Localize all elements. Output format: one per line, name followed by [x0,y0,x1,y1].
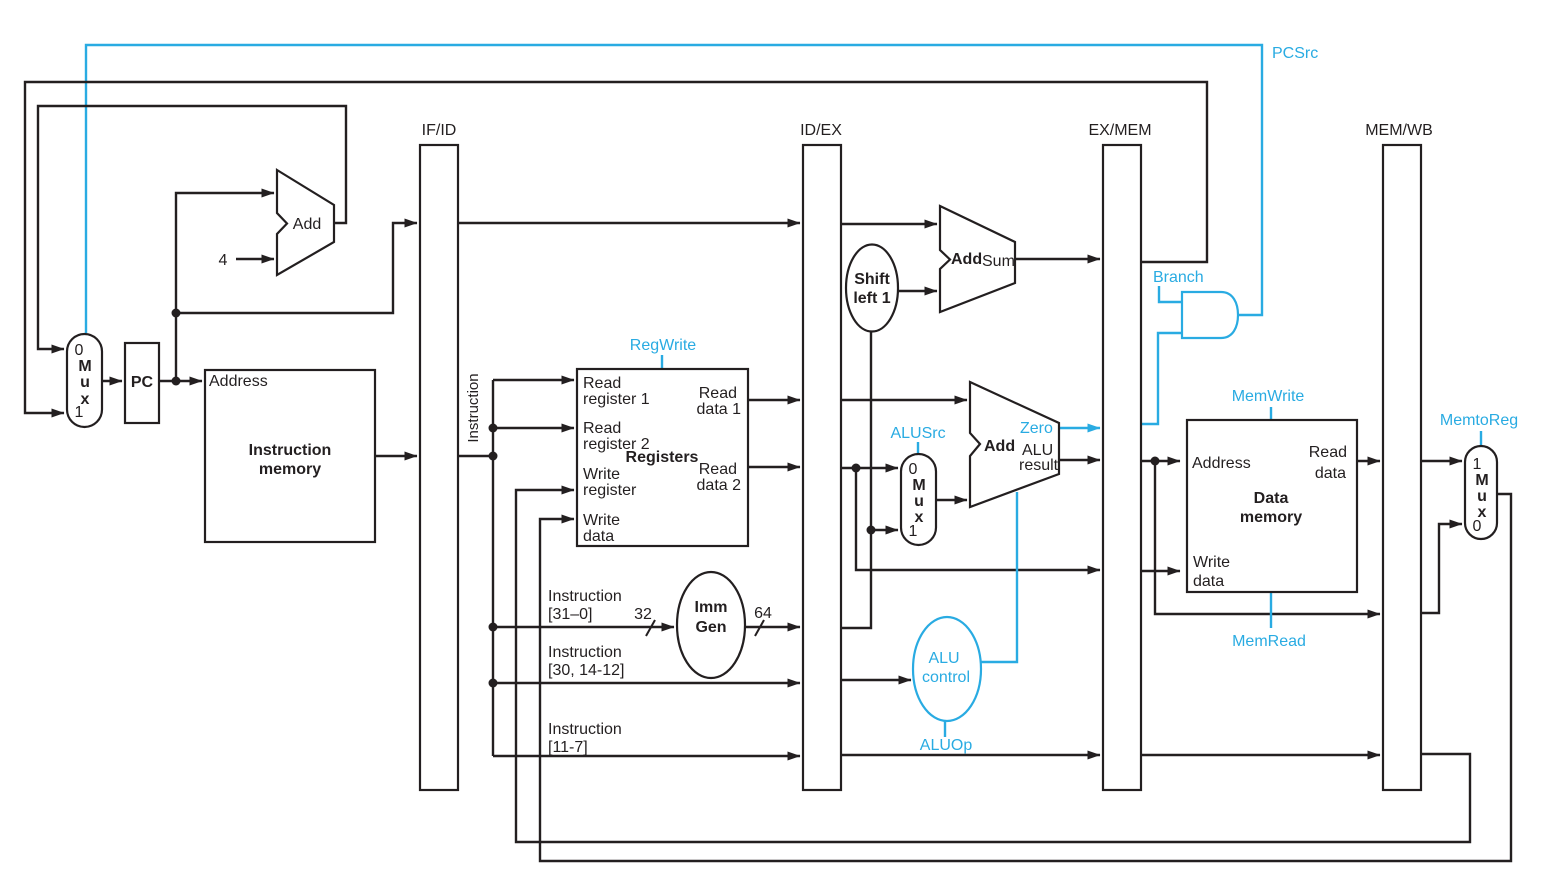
svg-text:data: data [583,528,614,545]
svg-text:Address: Address [209,373,268,390]
svg-text:ALU: ALU [928,650,959,667]
svg-text:Write: Write [583,512,620,529]
svg-text:Read: Read [583,375,621,392]
svg-text:EX/MEM: EX/MEM [1088,122,1151,139]
wire ID/EX write-register number to EX/MEM [841,754,1100,756]
wire ALU result bypass around data memory to MEM/WB [1155,461,1380,614]
wire EX/MEM store data to data memory write data [1141,570,1180,572]
wire branch-target loop: EX/MEM out right, up, across top, down to mux input 1 [25,82,1207,413]
instruction memory [205,370,375,542]
svg-text:Registers: Registers [626,449,699,466]
ALU [970,382,1059,507]
wire ID/EX read data 1 to ALU [841,399,967,401]
svg-text:Shift: Shift [854,271,890,288]
node PC+4 branch junction [172,309,181,318]
wire ID/EX funct field to ALU control [841,679,911,681]
wire ALUSrc control tick [917,442,919,453]
wire Read data 1 to ID/EX [748,399,800,401]
svg-text:Data: Data [1254,490,1289,507]
adder Add (PC+4) [277,170,334,275]
svg-text:IF/ID: IF/ID [422,122,457,139]
svg-text:Read: Read [699,461,737,478]
wire EX/MEM ALU result to data memory address [1141,460,1180,462]
svg-text:register: register [583,482,637,499]
adder AddSum (branch target) [940,206,1015,312]
svg-text:Instruction: Instruction [465,373,482,442]
wire instruction [30,14-12] to ID/EX [493,682,800,684]
node ALU result junction [1151,457,1160,466]
svg-text:u: u [914,493,924,510]
node instruction fan junction (main) [489,452,498,461]
svg-text:data: data [1193,573,1224,590]
svg-text:Gen: Gen [695,619,726,636]
svg-text:ID/EX: ID/EX [800,122,842,139]
svg-text:data 1: data 1 [697,401,742,418]
wire ALUOp control tick [944,721,946,737]
svg-text:result: result [1019,457,1059,474]
svg-text:1: 1 [909,523,918,540]
mux MemtoReg [1465,446,1497,539]
svg-text:1: 1 [75,404,84,421]
wire ALU result to EX/MEM [1059,459,1100,461]
svg-text:Instruction: Instruction [249,442,332,459]
wire MEM/WB ALU result to MemtoReg mux input 0 [1421,524,1462,613]
pipeline register IF/ID [420,145,458,790]
wire PC+4 value to IF/ID [176,223,417,313]
wire PC to instruction memory address [159,380,202,382]
wire MEM/WB read data to MemtoReg mux input 1 [1421,460,1462,462]
wire ALU control to ALU select input [981,492,1017,662]
svg-text:control: control [922,669,970,686]
wire instruction memory to IF/ID [375,455,417,457]
svg-text:RegWrite: RegWrite [630,337,696,354]
pipeline register MEM/WB [1383,145,1421,790]
svg-text:M: M [78,358,91,375]
wire Read data 2 to ID/EX [748,466,800,468]
wire MemtoReg mux output back to Registers write data [540,494,1511,861]
svg-text:memory: memory [1240,509,1302,526]
svg-text:Zero: Zero [1020,420,1053,437]
mux PC source [67,334,102,427]
wire MemRead control tick [1270,592,1272,628]
svg-text:register 1: register 1 [583,391,650,408]
pipeline register ID/EX [803,145,841,790]
svg-text:0: 0 [909,461,918,478]
svg-text:4: 4 [219,252,228,269]
svg-text:data 2: data 2 [697,477,742,494]
node immediate junction [867,526,876,535]
wire instruction [31-0] to Imm Gen [493,626,674,628]
wire MEM/WB write-register number back to Registers write register [516,490,1470,842]
wire MemtoReg control tick [1480,431,1482,445]
register PC [125,343,159,423]
wire ALUSrc mux to ALU lower input [936,499,967,501]
wire ID/EX immediate up to Shift left 1 [841,331,871,628]
wire instruction to Read register 1 [493,379,574,381]
svg-text:PC: PC [131,374,154,391]
register file Registers [577,369,748,546]
wire MemWrite control tick [1270,407,1272,419]
svg-text:MemRead: MemRead [1232,633,1306,650]
svg-text:Add: Add [293,216,321,233]
wire data memory read data to MEM/WB [1357,460,1380,462]
wire Shift left 1 to AddSum lower input [898,290,937,292]
svg-text:64: 64 [754,605,772,622]
imm gen ellipse [677,572,745,678]
wire constant 4 to Add [236,258,274,260]
svg-text:data: data [1315,465,1346,482]
svg-text:u: u [1477,488,1487,505]
pipeline register EX/MEM [1103,145,1141,790]
svg-text:u: u [80,374,90,391]
wire instruction fan-out vertical [458,380,493,756]
svg-text:MemWrite: MemWrite [1232,388,1305,405]
mux ALUSrc [901,454,936,545]
svg-text:[31–0]: [31–0] [548,606,592,623]
wire EX/MEM write-register number to MEM/WB [1141,754,1380,756]
wire PC tap up to Add input [176,193,274,381]
wire EX/MEM zero flag to AND gate lower input [1141,333,1181,424]
wire Imm Gen output to ID/EX [745,626,800,628]
svg-text:[11-7]: [11-7] [548,739,588,756]
svg-text:Write: Write [583,466,620,483]
wire AddSum branch target to EX/MEM [1015,258,1100,260]
svg-text:0: 0 [75,342,84,359]
node instruction [31-0] junction [489,623,498,632]
svg-text:memory: memory [259,461,321,478]
node read data 2 junction [852,464,861,473]
svg-text:Read: Read [583,420,621,437]
svg-text:MemtoReg: MemtoReg [1440,412,1518,429]
slash 64-bit bus [755,620,764,636]
svg-text:Sum: Sum [982,253,1015,270]
svg-text:Imm: Imm [695,599,728,616]
wire IF/ID PC+4 to ID/EX [458,222,800,224]
wire Branch control to AND gate upper input [1159,286,1181,302]
wire ID/EX read data 2 to ALUSrc mux input 0 [841,467,898,469]
svg-text:32: 32 [634,606,652,623]
wire PCSrc: AND gate output up over the top to PC mux select [86,45,1262,333]
data memory [1187,420,1357,592]
svg-text:1: 1 [1473,456,1482,473]
svg-text:Read: Read [1309,444,1347,461]
node instruction [30,14-12] junction [489,679,498,688]
svg-text:left 1: left 1 [853,290,890,307]
slash 32-bit bus [646,620,655,636]
svg-text:M: M [1475,472,1488,489]
wire read data 2 down and to EX/MEM (store data) [856,468,1100,570]
node instruction fan junction (read register 2) [489,424,498,433]
AND gate (branch) [1182,292,1238,338]
svg-text:[30, 14-12]: [30, 14-12] [548,662,625,679]
wire mux to PC [102,380,122,382]
wire instruction [11-7] to ID/EX [493,755,800,757]
shift left 1 ellipse [846,245,898,332]
svg-text:0: 0 [1473,518,1482,535]
wire RegWrite control tick [661,355,663,368]
node PC output junction [172,377,181,386]
svg-text:PCSrc: PCSrc [1272,45,1318,62]
wire immediate tap to ALUSrc mux input 1 [871,529,898,531]
wire ALU Zero flag to EX/MEM [1059,427,1100,429]
ALU control ellipse [913,617,981,721]
svg-text:Branch: Branch [1153,269,1204,286]
svg-text:Address: Address [1192,455,1251,472]
wire ID/EX PC+4 to AddSum upper input [841,223,937,225]
svg-text:Add: Add [984,438,1015,455]
svg-text:Instruction: Instruction [548,721,622,738]
svg-text:ALUOp: ALUOp [920,737,973,754]
svg-text:M: M [912,477,925,494]
svg-text:ALUSrc: ALUSrc [890,425,945,442]
svg-text:MEM/WB: MEM/WB [1365,122,1433,139]
svg-text:Write: Write [1193,554,1230,571]
svg-text:Instruction: Instruction [548,588,622,605]
wire instruction to Read register 2 [493,427,574,429]
svg-text:Add: Add [951,251,982,268]
svg-text:Instruction: Instruction [548,644,622,661]
wire PC+4 loop: Add output right, up, across, down to mux input 0 [38,106,346,349]
svg-text:Read: Read [699,385,737,402]
